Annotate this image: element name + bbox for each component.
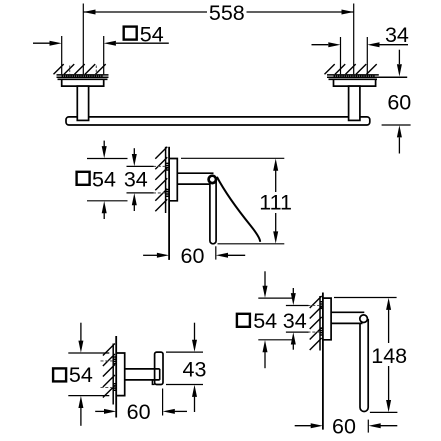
square symbol 54 hook — [53, 368, 66, 381]
dim 34 line right — [380, 44, 409, 46]
dim 60 mid line right — [228, 254, 246, 256]
wall surface line spare — [322, 293, 324, 430]
wall surface line mid — [168, 147, 170, 260]
svg-text:60: 60 — [127, 400, 151, 424]
spare dim 60 line left — [295, 425, 311, 427]
dim 558 left arrow — [83, 10, 95, 15]
hook dim 54 bottom arrow — [78, 396, 83, 408]
hook dim 43 top ref — [166, 351, 203, 353]
wall outer line right — [327, 74, 379, 76]
screw ticks hook lower — [113, 384, 116, 391]
hole mark mid B — [153, 192, 165, 194]
hook plate — [155, 352, 163, 384]
ext line left post center — [82, 4, 84, 75]
dim 34 bottom arrow mid — [132, 193, 137, 205]
roll holder bar mid — [210, 181, 216, 244]
svg-text:558: 558 — [209, 1, 245, 25]
square symbol 54 spare — [237, 314, 250, 327]
hook arm end — [159, 369, 161, 380]
dim 54 bottom arrow mid — [102, 201, 107, 213]
dim 34 line left — [312, 44, 329, 46]
dim 34 arrow left — [328, 42, 340, 47]
spare dim 54 top ref — [258, 297, 294, 299]
hook dim 54 top ref — [68, 352, 109, 354]
svg-text:34: 34 — [124, 168, 148, 192]
dim 34 arrow right — [367, 42, 379, 47]
spare dim 60 line right — [380, 425, 397, 427]
svg-text:60: 60 — [332, 414, 356, 438]
wall hatch right — [325, 64, 377, 74]
wall surface line hook — [115, 336, 117, 418]
spare arm — [331, 312, 364, 323]
dim 54 arrow right — [104, 41, 116, 46]
wall hatch hook — [103, 344, 115, 398]
spare dim 54 bottom arrow — [263, 340, 268, 352]
spare dim 60 arrow left — [311, 423, 323, 428]
hook dim 43 bottom arrow — [192, 385, 197, 397]
dim 34 ext lines — [341, 37, 368, 74]
hook dim 54 top arrow — [80, 323, 82, 342]
spare dim 60 ext tick — [367, 420, 369, 433]
spare dim 34 bottom ref — [286, 331, 309, 333]
svg-text:43: 43 — [183, 358, 207, 382]
left post — [77, 86, 88, 120]
hook dim 60 line left — [95, 410, 104, 412]
spare dim 54 bottom ref — [258, 339, 294, 341]
flange mid — [169, 159, 177, 201]
hole mark spare B — [308, 331, 320, 333]
dim 111 bottom ref line — [218, 243, 285, 245]
hook dim 43 bottom ref — [166, 384, 203, 386]
svg-text:54: 54 — [140, 22, 164, 46]
dim 60 top arrow down — [398, 50, 400, 64]
right flange — [329, 78, 378, 80]
ext line right post center — [353, 4, 355, 75]
dim 60 bottom ref line — [382, 124, 411, 126]
hole mark mid A — [153, 165, 165, 167]
screw ticks right — [334, 75, 374, 77]
arm mid — [177, 173, 213, 184]
square symbol 54 top — [124, 27, 137, 40]
hook arm — [125, 369, 160, 380]
dim 60 mid arrow right — [216, 253, 228, 258]
hook dim 60 line right — [175, 410, 188, 412]
screw ticks hook upper — [113, 357, 116, 364]
hole mark spare A — [308, 305, 320, 307]
dim 54 line left — [33, 42, 50, 44]
wall hatch mid — [155, 147, 167, 212]
hook flange — [116, 353, 125, 396]
screw ticks spare lower — [320, 328, 323, 335]
spare dim 148 bottom ref — [370, 411, 398, 413]
dim 54 ext lines — [62, 36, 104, 74]
screw ticks left — [62, 75, 102, 77]
screw ticks spare upper — [320, 302, 323, 309]
dim 558 line — [83, 11, 353, 13]
hook dim 60 arrow right — [163, 409, 175, 414]
spare dim 34 bottom arrow — [291, 332, 296, 344]
wall surface line left — [57, 76, 109, 78]
dim 60 bottom arrow up — [397, 125, 402, 137]
hook dim 60 arrow left — [104, 409, 116, 414]
dim 34 bottom ref line mid — [127, 192, 154, 194]
wall hatch spare — [310, 296, 322, 350]
spare bar — [360, 319, 368, 412]
screw ticks mid upper — [166, 163, 169, 170]
svg-text:111: 111 — [259, 190, 292, 214]
svg-text:54: 54 — [253, 309, 277, 333]
dim 111 top ref line — [181, 157, 284, 159]
spare dim 148 top arrow — [386, 298, 391, 310]
screw ticks mid lower — [166, 190, 169, 197]
wall outer line spare — [319, 296, 321, 351]
dim 111 top arrow — [273, 159, 278, 171]
spare dim 148 top ref — [334, 297, 397, 299]
hook step — [152, 380, 154, 385]
dim 111 bottom arrow — [273, 231, 278, 243]
hook dim 60 ext tick — [162, 389, 164, 416]
svg-text:54: 54 — [92, 168, 116, 192]
wall outer line left — [57, 74, 109, 76]
dim 54 arrow left — [50, 41, 62, 46]
spare dim 148 bottom arrow — [386, 400, 391, 412]
dim 34 top ref line mid — [127, 165, 154, 167]
spare bar cap — [360, 315, 368, 323]
square symbol 54 mid — [77, 172, 90, 185]
right post — [349, 86, 360, 120]
dim 34 top arrow mid — [133, 148, 135, 154]
svg-text:34: 34 — [283, 309, 307, 333]
hole mark hook A — [101, 360, 113, 362]
svg-text:60: 60 — [181, 244, 205, 268]
spare dim 60 arrow right — [369, 423, 381, 428]
svg-text:34: 34 — [385, 23, 409, 47]
hole mark hook B — [101, 387, 113, 389]
svg-text:60: 60 — [387, 90, 411, 114]
hole mark left A — [69, 66, 71, 75]
wall surface line right — [327, 76, 407, 78]
spare dim 34 top arrow — [292, 288, 294, 294]
spare dim 34 top ref — [286, 305, 309, 307]
hook dim 43 top arrow — [194, 323, 196, 341]
dim 60 mid line left — [143, 254, 157, 256]
dim 60 mid ext tick — [215, 246, 217, 259]
bar — [66, 117, 370, 125]
svg-text:148: 148 — [371, 344, 407, 368]
cover flap — [217, 177, 260, 242]
spare flange — [323, 298, 331, 340]
wall outer line hook — [112, 344, 114, 405]
spare dim 54 top arrow — [264, 271, 266, 286]
hole mark left B — [95, 66, 97, 75]
pivot pin — [209, 176, 216, 183]
dim 558 right arrow — [342, 10, 354, 15]
dim 54 top ref line mid — [87, 158, 128, 160]
wall outer line mid — [165, 147, 167, 213]
left flange — [58, 78, 108, 80]
hook dim 54 bottom ref — [68, 395, 109, 397]
dim 54 line right — [116, 42, 169, 44]
dim 54 top arrow mid — [103, 141, 105, 147]
dim 60 mid arrow left — [157, 253, 169, 258]
svg-text:54: 54 — [69, 363, 93, 387]
wall hatch left — [54, 64, 106, 74]
dim 54 bottom ref line mid — [87, 200, 128, 202]
